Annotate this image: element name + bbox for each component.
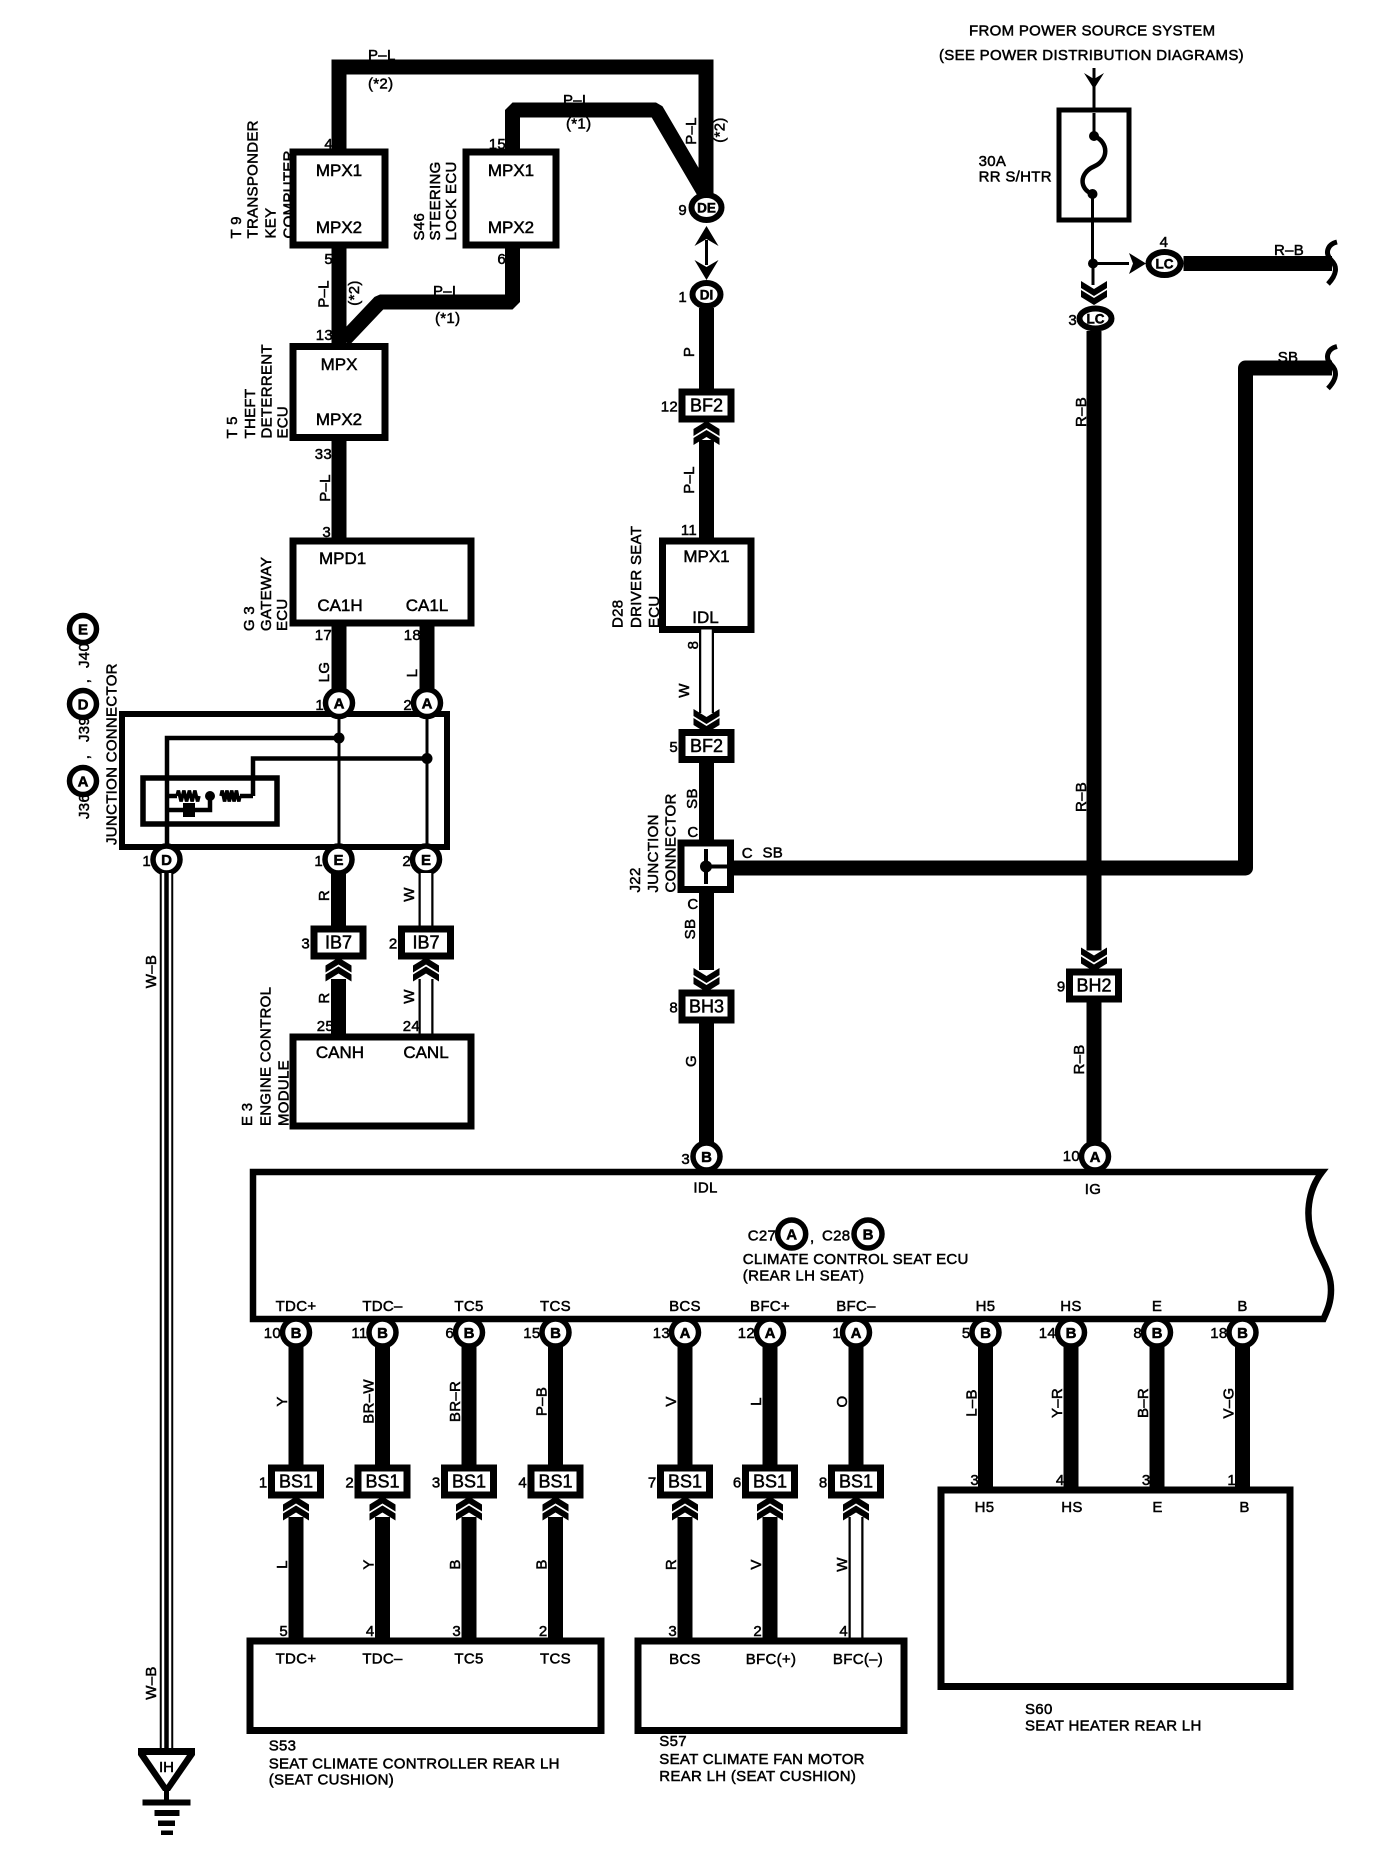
svg-text:DRIVER SEAT: DRIVER SEAT	[628, 526, 645, 628]
svg-text:24: 24	[403, 1018, 420, 1035]
svg-text:E: E	[333, 852, 343, 869]
svg-text:A: A	[786, 1227, 797, 1244]
svg-text:DE: DE	[697, 201, 716, 216]
svg-text:B: B	[464, 1325, 475, 1342]
svg-text:3: 3	[970, 1472, 979, 1489]
svg-text:,: ,	[76, 755, 93, 759]
svg-text:MPX1: MPX1	[316, 161, 362, 180]
svg-text:SB: SB	[684, 788, 701, 809]
svg-text:4: 4	[366, 1623, 375, 1640]
svg-text:S57: S57	[659, 1733, 687, 1750]
svg-text:B: B	[291, 1325, 302, 1342]
svg-text:18: 18	[404, 627, 421, 644]
svg-text:8: 8	[669, 1000, 678, 1017]
svg-text:R–B: R–B	[1073, 397, 1090, 427]
svg-text:TCS: TCS	[540, 1651, 571, 1668]
svg-text:P–L: P–L	[563, 92, 591, 109]
svg-text:BCS: BCS	[669, 1651, 701, 1668]
svg-text:LC: LC	[1087, 312, 1105, 327]
svg-text:GATEWAY: GATEWAY	[258, 557, 275, 631]
svg-text:B: B	[534, 1559, 551, 1569]
svg-text:BR–W: BR–W	[361, 1379, 378, 1424]
svg-text:BF2: BF2	[690, 396, 723, 416]
svg-text:P–L: P–L	[368, 47, 396, 64]
svg-text:A: A	[851, 1325, 862, 1342]
svg-text:SEAT CLIMATE CONTROLLER REAR L: SEAT CLIMATE CONTROLLER REAR LH	[269, 1756, 560, 1773]
svg-text:Y–R: Y–R	[1049, 1388, 1066, 1418]
svg-text:13: 13	[316, 327, 333, 344]
svg-text:P–L: P–L	[316, 280, 333, 308]
svg-text:MPX2: MPX2	[316, 410, 362, 429]
svg-text:FROM POWER SOURCE SYSTEM: FROM POWER SOURCE SYSTEM	[969, 23, 1215, 40]
svg-text:BS1: BS1	[365, 1472, 399, 1492]
svg-text:LG: LG	[316, 662, 333, 683]
svg-text:V: V	[663, 1396, 680, 1406]
svg-text:A: A	[680, 1325, 691, 1342]
svg-text:2: 2	[753, 1623, 762, 1640]
svg-text:C28: C28	[822, 1227, 850, 1244]
svg-text:A: A	[334, 696, 345, 713]
svg-text:2: 2	[345, 1475, 354, 1492]
svg-text:BS1: BS1	[753, 1472, 787, 1492]
svg-text:MPX2: MPX2	[488, 218, 534, 237]
svg-text:3: 3	[681, 1151, 690, 1168]
svg-text:P: P	[681, 347, 698, 357]
svg-text:P–L: P–L	[317, 474, 334, 502]
svg-text:C27: C27	[748, 1227, 776, 1244]
svg-text:W: W	[401, 989, 418, 1004]
svg-text:CA1L: CA1L	[406, 596, 449, 615]
svg-text:10: 10	[264, 1325, 281, 1342]
svg-text:B: B	[447, 1559, 464, 1569]
svg-text:BS1: BS1	[538, 1472, 572, 1492]
svg-text:J40: J40	[76, 643, 93, 668]
svg-text:LOCK ECU: LOCK ECU	[443, 161, 460, 240]
svg-text:SB: SB	[1278, 349, 1299, 366]
svg-text:ECU: ECU	[275, 406, 292, 439]
svg-text:SEAT HEATER REAR LH: SEAT HEATER REAR LH	[1025, 1718, 1202, 1735]
svg-text:S53: S53	[269, 1738, 297, 1755]
svg-text:15: 15	[523, 1325, 540, 1342]
svg-text:IB7: IB7	[325, 933, 352, 953]
svg-text:JUNCTION CONNECTOR: JUNCTION CONNECTOR	[104, 663, 121, 845]
svg-text:,: ,	[810, 1229, 814, 1246]
svg-text:P–L: P–L	[681, 466, 698, 494]
svg-text:W: W	[401, 887, 418, 902]
svg-text:6: 6	[733, 1475, 742, 1492]
svg-text:ECU: ECU	[274, 598, 291, 631]
svg-text:BCS: BCS	[669, 1298, 701, 1315]
svg-text:D: D	[78, 697, 89, 714]
svg-text:B: B	[1152, 1325, 1163, 1342]
svg-text:BS1: BS1	[452, 1472, 486, 1492]
svg-text:E: E	[1152, 1298, 1162, 1315]
svg-text:TDC+: TDC+	[276, 1651, 317, 1668]
svg-text:7: 7	[648, 1475, 657, 1492]
svg-text:R–B: R–B	[1071, 1044, 1088, 1074]
svg-text:14: 14	[1039, 1325, 1056, 1342]
svg-text:ENGINE CONTROL: ENGINE CONTROL	[258, 987, 275, 1126]
svg-text:E 3: E 3	[239, 1103, 256, 1126]
svg-text:HS: HS	[1061, 1499, 1082, 1516]
svg-text:S46: S46	[411, 213, 428, 241]
svg-text:B: B	[701, 1149, 712, 1166]
svg-text:R: R	[316, 992, 333, 1003]
svg-text:MPX: MPX	[321, 355, 358, 374]
svg-text:TC5: TC5	[454, 1298, 483, 1315]
svg-text:4: 4	[839, 1623, 848, 1640]
svg-text:(*2): (*2)	[346, 280, 363, 305]
svg-text:2: 2	[539, 1623, 548, 1640]
svg-text:G 3: G 3	[241, 606, 258, 631]
svg-text:11: 11	[681, 522, 697, 539]
svg-text:B: B	[1237, 1325, 1248, 1342]
svg-text:J22: J22	[627, 867, 644, 892]
svg-text:3: 3	[301, 936, 310, 953]
svg-text:BS1: BS1	[279, 1472, 313, 1492]
svg-text:TRANSPONDER: TRANSPONDER	[245, 120, 262, 238]
svg-text:MPD1: MPD1	[319, 549, 366, 568]
svg-text:6: 6	[445, 1325, 454, 1342]
svg-text:6: 6	[497, 251, 506, 268]
svg-text:TDC+: TDC+	[276, 1298, 317, 1315]
svg-text:B: B	[1237, 1298, 1247, 1315]
svg-text:1: 1	[832, 1325, 841, 1342]
svg-text:DETERRENT: DETERRENT	[259, 344, 276, 438]
svg-text:B: B	[1066, 1325, 1077, 1342]
svg-text:3: 3	[668, 1623, 677, 1640]
svg-text:(SEE POWER DISTRIBUTION DIAGRA: (SEE POWER DISTRIBUTION DIAGRAMS)	[939, 47, 1244, 64]
svg-text:25: 25	[317, 1018, 334, 1035]
svg-text:H5: H5	[976, 1298, 996, 1315]
svg-text:A: A	[1090, 1149, 1101, 1166]
svg-text:IB7: IB7	[412, 933, 439, 953]
svg-text:(SEAT CUSHION): (SEAT CUSHION)	[269, 1772, 394, 1789]
svg-text:D: D	[161, 852, 172, 869]
svg-text:P–L: P–L	[433, 283, 461, 300]
svg-text:B: B	[1239, 1499, 1249, 1516]
svg-text:(*1): (*1)	[566, 116, 591, 133]
svg-text:33: 33	[315, 446, 332, 463]
svg-text:30A: 30A	[979, 153, 1007, 170]
svg-text:,: ,	[76, 679, 93, 683]
svg-text:TDC–: TDC–	[362, 1651, 403, 1668]
svg-text:SEAT CLIMATE FAN MOTOR: SEAT CLIMATE FAN MOTOR	[659, 1751, 865, 1768]
svg-text:CANL: CANL	[403, 1043, 448, 1062]
svg-text:2: 2	[389, 936, 398, 953]
svg-text:BS1: BS1	[839, 1472, 873, 1492]
svg-text:5: 5	[279, 1623, 288, 1640]
svg-text:A: A	[422, 696, 433, 713]
svg-text:3: 3	[432, 1475, 441, 1492]
svg-text:L–B: L–B	[964, 1389, 981, 1417]
svg-text:HS: HS	[1060, 1298, 1081, 1315]
svg-text:BS1: BS1	[668, 1472, 702, 1492]
svg-text:W–B: W–B	[143, 955, 160, 988]
svg-text:BH3: BH3	[689, 997, 724, 1017]
svg-text:E: E	[421, 852, 431, 869]
svg-text:COMPUTER: COMPUTER	[281, 150, 298, 238]
svg-text:P–L: P–L	[683, 117, 700, 145]
svg-text:E: E	[78, 622, 88, 639]
svg-text:(REAR LH SEAT): (REAR LH SEAT)	[743, 1268, 864, 1285]
svg-text:S60: S60	[1025, 1701, 1053, 1718]
svg-text:Y: Y	[274, 1396, 291, 1406]
svg-text:R: R	[663, 1559, 680, 1570]
svg-text:C: C	[687, 824, 698, 841]
svg-text:L: L	[274, 1560, 291, 1569]
svg-text:10: 10	[1063, 1148, 1080, 1165]
svg-text:IH: IH	[159, 1759, 174, 1776]
svg-text:4: 4	[324, 136, 333, 153]
svg-text:BF2: BF2	[690, 736, 723, 756]
svg-text:9: 9	[678, 202, 687, 219]
svg-text:O: O	[834, 1396, 851, 1408]
svg-text:J36: J36	[76, 794, 93, 819]
svg-text:STEERING: STEERING	[427, 161, 444, 240]
svg-text:TC5: TC5	[454, 1651, 483, 1668]
svg-text:1: 1	[1227, 1472, 1236, 1489]
svg-text:LC: LC	[1156, 257, 1174, 272]
svg-text:BFC+: BFC+	[750, 1298, 790, 1315]
svg-text:3: 3	[1068, 312, 1077, 329]
svg-text:1: 1	[142, 853, 151, 870]
svg-text:CLIMATE CONTROL SEAT ECU: CLIMATE CONTROL SEAT ECU	[743, 1251, 969, 1268]
svg-text:L: L	[748, 1397, 765, 1406]
svg-text:(*2): (*2)	[368, 76, 393, 93]
svg-text:SB: SB	[763, 845, 784, 862]
svg-text:J39: J39	[76, 717, 93, 742]
svg-text:MPX2: MPX2	[316, 218, 362, 237]
svg-text:15: 15	[489, 136, 506, 153]
svg-text:D28: D28	[610, 600, 627, 628]
svg-text:CA1H: CA1H	[317, 596, 362, 615]
svg-text:RR S/HTR: RR S/HTR	[979, 169, 1052, 186]
svg-text:C: C	[687, 896, 698, 913]
svg-text:12: 12	[661, 399, 678, 416]
svg-text:ECU: ECU	[646, 595, 663, 628]
svg-text:BFC(–): BFC(–)	[833, 1651, 883, 1668]
svg-text:V–G: V–G	[1221, 1388, 1238, 1419]
svg-text:3: 3	[452, 1623, 461, 1640]
svg-text:IDL: IDL	[692, 608, 718, 627]
svg-text:C: C	[742, 845, 753, 862]
svg-text:A: A	[765, 1325, 776, 1342]
svg-text:5: 5	[962, 1325, 971, 1342]
svg-text:R: R	[316, 890, 333, 901]
svg-text:B: B	[550, 1325, 561, 1342]
svg-text:THEFT: THEFT	[242, 389, 259, 439]
svg-text:W: W	[676, 683, 693, 698]
svg-text:12: 12	[738, 1325, 755, 1342]
svg-text:11: 11	[351, 1325, 367, 1342]
svg-text:4: 4	[1160, 234, 1169, 251]
svg-text:P–B: P–B	[534, 1387, 551, 1416]
svg-text:H5: H5	[975, 1499, 995, 1516]
svg-text:BR–R: BR–R	[447, 1381, 464, 1422]
svg-text:MPX1: MPX1	[683, 547, 729, 566]
svg-text:W: W	[834, 1557, 851, 1572]
svg-text:9: 9	[1057, 979, 1066, 996]
svg-text:B: B	[377, 1325, 388, 1342]
svg-text:MPX1: MPX1	[488, 161, 534, 180]
svg-text:SB: SB	[682, 919, 699, 940]
svg-text:G: G	[683, 1055, 700, 1067]
svg-text:REAR LH (SEAT CUSHION): REAR LH (SEAT CUSHION)	[659, 1768, 856, 1785]
svg-text:MODULE: MODULE	[276, 1060, 293, 1126]
svg-text:IDL: IDL	[693, 1180, 717, 1197]
svg-text:KEY: KEY	[263, 208, 280, 239]
svg-text:(*1): (*1)	[435, 310, 460, 327]
svg-text:BH2: BH2	[1076, 976, 1111, 996]
svg-text:CANH: CANH	[316, 1043, 364, 1062]
svg-text:Y: Y	[361, 1559, 378, 1569]
svg-text:18: 18	[1210, 1325, 1227, 1342]
svg-text:R–B: R–B	[1073, 782, 1090, 812]
svg-text:13: 13	[653, 1325, 670, 1342]
svg-text:E: E	[1152, 1499, 1162, 1516]
svg-text:8: 8	[819, 1475, 828, 1492]
svg-text:T 5: T 5	[224, 416, 241, 438]
svg-text:17: 17	[315, 627, 332, 644]
svg-text:4: 4	[1056, 1472, 1065, 1489]
svg-text:1: 1	[314, 853, 323, 870]
svg-text:TCS: TCS	[540, 1298, 571, 1315]
svg-text:2: 2	[402, 853, 411, 870]
svg-text:DI: DI	[700, 288, 714, 303]
svg-text:W–B: W–B	[143, 1666, 160, 1699]
svg-text:B: B	[863, 1227, 874, 1244]
svg-text:R–B: R–B	[1274, 242, 1304, 259]
svg-text:L: L	[404, 669, 421, 678]
svg-text:CONNECTOR: CONNECTOR	[663, 793, 680, 892]
svg-text:JUNCTION: JUNCTION	[645, 814, 662, 892]
svg-text:(*2): (*2)	[712, 117, 729, 142]
svg-text:B: B	[980, 1325, 991, 1342]
svg-text:A: A	[78, 774, 89, 791]
svg-text:3: 3	[1142, 1472, 1151, 1489]
svg-text:BFC(+): BFC(+)	[746, 1651, 797, 1668]
svg-text:1: 1	[678, 289, 687, 306]
svg-text:T 9: T 9	[228, 216, 245, 238]
svg-text:8: 8	[1133, 1325, 1142, 1342]
svg-text:1: 1	[259, 1475, 268, 1492]
svg-text:5: 5	[669, 739, 678, 756]
svg-text:4: 4	[518, 1475, 527, 1492]
svg-text:BFC–: BFC–	[836, 1298, 876, 1315]
svg-text:TDC–: TDC–	[362, 1298, 403, 1315]
svg-text:IG: IG	[1085, 1181, 1101, 1198]
svg-text:B–R: B–R	[1135, 1388, 1152, 1418]
svg-text:V: V	[748, 1559, 765, 1569]
